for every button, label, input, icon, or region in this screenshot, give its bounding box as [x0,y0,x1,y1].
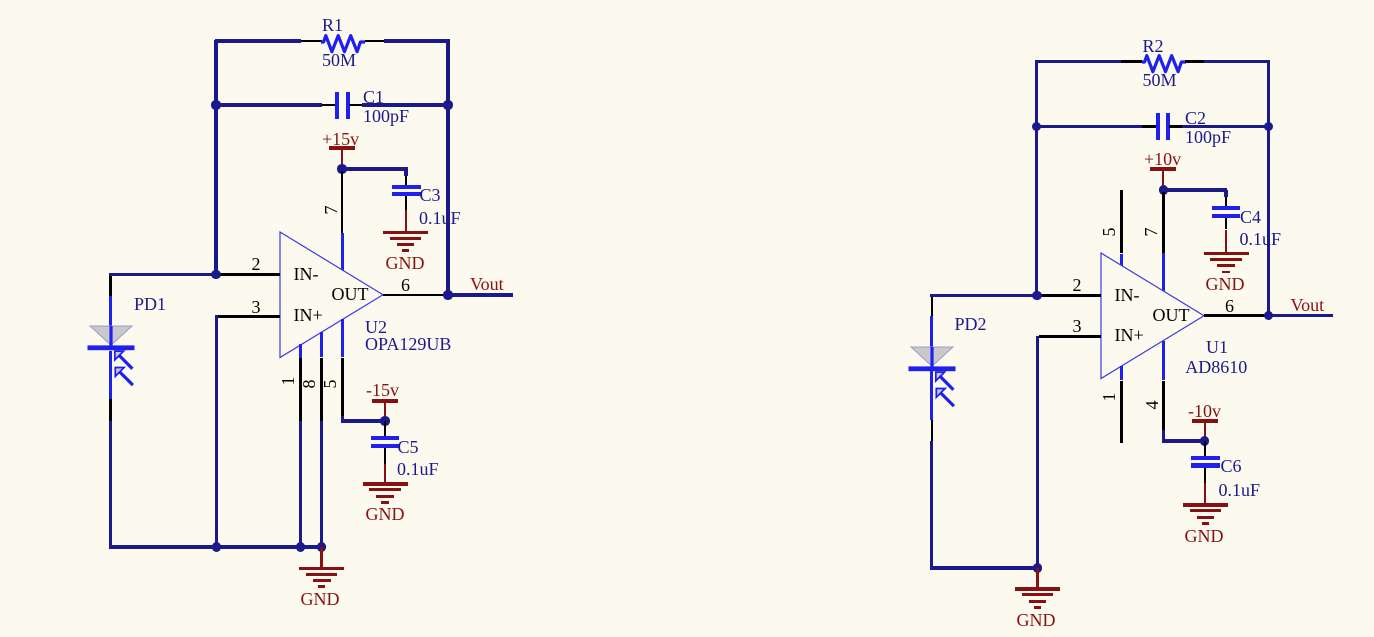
ground symbol below C6 [1183,503,1228,507]
wire: right loop left vertical (x=1036.3) [1035,60,1038,297]
wire: C5 to GND stem [384,464,387,483]
label C1 designator [363,88,384,106]
wire: +10v rail to C4 [1163,188,1227,191]
label IN- (U2) [294,265,319,283]
pin 7 label (U1) [1142,222,1162,242]
pin 1 of U2 blue stub [299,344,302,358]
pin: PD2 anode stub (blue) [930,316,933,347]
node: junction +10v [1159,185,1168,194]
pin: PD1 anode lead (black) [109,276,112,296]
capacitor C3 [392,185,420,189]
label OUT (U2) [332,285,369,303]
node: junction C1 row right [443,100,452,109]
wire: right feedback top-left segment (R2 row) [1035,60,1121,63]
wire: PD1 top corner [109,273,112,277]
ground symbol bottom left [299,567,344,571]
wire: C2 row left segment [1035,125,1143,128]
pin 1 of U1 blue stub [1120,366,1123,380]
photodiode PD2 [907,345,969,417]
label U2 comment OPA129UB [365,335,451,353]
pin 2 of U2 (IN-) [218,273,281,276]
pin: C2 left lead [1142,125,1156,128]
label C1 value 100pF [363,107,409,125]
pin: PD1 anode stub (blue) [109,296,112,327]
net label Vout (right) [1291,296,1325,314]
pin 5 of U1 stub black [1120,190,1123,254]
label +15v [322,130,359,148]
label OUT (U1) [1153,306,1190,324]
pin: PD1 cathode lead (black) [109,399,112,421]
pin 5 of U2 black [341,358,344,417]
wire: PD1 top horizontal to IN- junction [109,273,217,276]
label U1 comment AD8610 [1185,358,1247,376]
label C6 value 0.1uF [1219,481,1261,499]
pin 8 of U2 black [320,358,323,421]
node: junction bottom pin3 [212,542,221,551]
pin: PD2 cathode stub (blue) [930,371,933,420]
pin 1 of U2 black [299,358,302,421]
pin 2 label [252,255,261,273]
ground symbol below C4 [1204,252,1249,256]
wire: right loop right vertical (x=1268.3) [1267,60,1270,317]
label R1 value 50M [322,51,356,69]
pin: R1 right lead [365,40,385,43]
wire: bottom GND stem (right) [1036,568,1039,588]
label C5 designator [398,438,419,456]
wire: pin5 elbow horizontal to -15v node [341,419,387,422]
pin 3 label (U1) [1073,317,1082,335]
pin: C3 top lead [405,176,408,185]
pin 5 label (U1) [1100,222,1120,242]
label R2 value 50M [1143,71,1177,89]
pin 4 of U1 black [1162,381,1165,431]
pin 2 label (U1) [1073,276,1082,294]
label -10v [1188,402,1221,420]
pin: PD2 anode lead (black) [931,297,934,317]
ground symbol below C3 [383,231,428,235]
label R1 designator [322,16,343,34]
wire: pin3 down vertical (x=1037.3) [1036,336,1039,570]
wire: +15v rail to C3 [342,167,408,170]
label C4 designator [1240,208,1261,226]
pin: C6 top lead [1204,441,1207,456]
label +10v [1144,150,1181,168]
pin 5 of U2 blue stub [341,319,344,357]
node: junction C2 row left [1032,122,1041,131]
pin 8 label [300,374,320,394]
node: junction -10v [1200,436,1209,445]
capacitor C4 [1212,206,1240,210]
op-amp U1 triangle [1099,251,1208,383]
pin 8 of U2 blue stub [320,332,323,358]
label IN+ (U1) [1115,326,1144,344]
wire: C4 branch corner [1224,190,1227,197]
label GND (bottom left) [301,590,340,608]
wire: Vout stub [450,293,514,296]
label C2 value 100pF [1185,128,1231,146]
wire: PD1 left vertical down [109,421,112,549]
label C5 value 0.1uF [397,460,439,478]
pin 1 of U1 black [1120,381,1123,443]
pin 7 of U2 (V+), black part [341,171,344,233]
wire: left feedback top-right segment (R1 row) [384,39,450,42]
pin 3 label [252,298,261,316]
wire: Vout stub (right) [1270,314,1333,317]
label C6 designator [1221,457,1242,475]
pin 3 of U2 (IN+) [218,315,280,318]
pin 6 of U2 (OUT) [383,294,447,297]
capacitor C5 [371,436,399,440]
pin 1 of U2 wire end [299,421,302,547]
pin: C5 top lead [384,421,387,436]
pin 7 of U1 black [1162,192,1165,254]
wire: right feedback top-right segment (R2 row) [1204,60,1270,63]
pin: R2 right lead [1185,60,1205,63]
pin: C2 right lead [1169,125,1182,128]
wire: right bottom ground bus [930,566,1039,569]
label U2 designator [365,318,387,336]
node: junction C1 row left [211,100,220,109]
resistor R2 [1138,48,1190,76]
label PD1 [134,295,166,313]
resistor R1 [317,28,369,56]
pin 3 of U1 (IN+) [1039,335,1101,338]
label C4 value 0.1uF [1240,230,1282,248]
label GND (C5) [366,505,405,523]
wire: C4 to GND stem [1225,230,1228,253]
node: junction output (right) [1264,311,1273,320]
label GND (C3) [386,254,425,272]
label IN- (U1) [1115,286,1140,304]
ground symbol below C5 [363,482,408,486]
photodiode PD1 [86,324,148,396]
wire: C1 row right segment [362,103,450,106]
pin 5 of U1 blue stub [1120,254,1123,266]
pin 2 of U1 (IN-) [1039,294,1102,297]
pin 1 label (U1) [1100,387,1120,407]
pin 1 label [279,371,299,391]
pin 5 label [321,374,341,394]
label C2 designator [1185,109,1206,127]
label GND (bottom right) [1017,611,1056,629]
wire: pin4 elbow horizontal to -10v node [1162,439,1207,442]
wire: C6 to GND stem [1204,483,1207,504]
node: junction bottom pin8 [317,542,326,551]
op-amp U2 triangle [278,230,387,362]
node: junction +15v [337,164,346,173]
label C3 value 0.1uF [419,209,461,227]
wire: C1 row left segment [215,103,323,106]
label GND (C4) [1206,275,1245,293]
pin 6 label (U1) [1225,297,1234,315]
pin: R2 left lead [1121,60,1142,63]
pin: C4 bottom lead [1225,218,1228,230]
capacitor C6 [1191,456,1219,460]
wire: left loop right vertical (x=448) [446,40,449,297]
pin 6 of U1 (OUT) [1204,314,1267,317]
label U1 designator [1206,338,1228,356]
wire: PD2 top corner [930,294,933,298]
pin: PD1 cathode stub (blue) [109,351,112,400]
label R2 designator [1143,37,1164,55]
power -15v symbol [372,399,398,403]
wire: left feedback top-left segment (R1 row) [215,39,302,42]
node: junction -15v [380,416,389,425]
label GND (C6) [1185,527,1224,545]
pin: R1 left lead [301,40,322,43]
capacitor C1 [335,92,339,119]
node: junction C2 row right [1264,122,1273,131]
capacitor C2 [1156,113,1160,140]
pin 6 label [401,276,410,294]
wire: PD2 left vertical down [930,441,933,570]
pin 4 of U1 blue stub [1162,341,1165,381]
label -15v [366,381,399,399]
pin: C6 bottom lead [1204,468,1207,483]
pin 7 of U2, blue stub [341,233,344,271]
pin 7 of U1 blue stub [1162,253,1165,291]
pin: PD2 cathode lead (black) [931,420,934,442]
pin 4 label (U1) [1143,395,1163,415]
net label Vout (left) [470,275,504,293]
power -10v symbol [1192,419,1218,423]
wire: left loop left vertical (x=216) [214,40,217,277]
label PD2 [955,315,987,333]
pin: C1 left lead [322,104,336,107]
wire: PD2 top horizontal to IN- junction [930,294,1037,297]
node: junction bottom right [1033,563,1042,572]
pin: C1 right lead [349,104,362,107]
wire: bottom GND stem [320,547,323,567]
power +15v symbol [329,146,355,150]
pin: C5 bottom lead [384,448,387,464]
wire: pin3 down vertical (x=216.5) [215,315,218,549]
wire: C3 to GND stem [405,210,408,231]
wire: left bottom ground bus [109,545,324,548]
node: junction bottom pin1 [296,542,305,551]
pin: C4 top lead [1225,197,1228,207]
wire: pin4 elbow vertical [1162,430,1165,443]
wire: C3 branch corner [404,169,407,176]
label C3 designator [420,186,441,204]
node: junction pin2/feedback [211,270,220,279]
pin 8 of U2 wire end [320,421,323,547]
node: junction output [443,290,452,299]
ground symbol bottom right [1015,587,1060,591]
wire: pin5 elbow vertical [341,416,344,423]
pin: C3 bottom lead [405,196,408,210]
wire: C2 row right segment [1182,125,1270,128]
label IN+ (U2) [294,306,323,324]
node: junction pin2/feedback (right) [1032,291,1041,300]
power +10v symbol [1150,167,1176,171]
pin 7 label [322,200,342,220]
